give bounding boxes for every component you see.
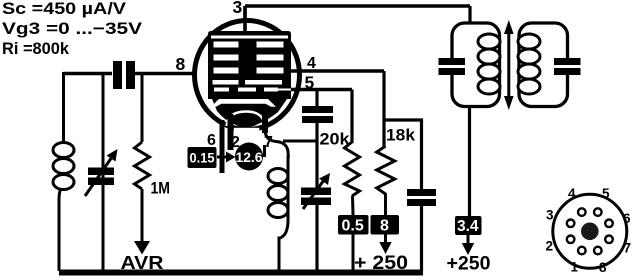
socket pin holes [578, 208, 586, 216]
variable capacitor CV1 bottom plate [88, 178, 114, 186]
inductor L1 loop 3 [53, 175, 74, 190]
svg-text:8: 8 [380, 218, 389, 235]
wire pin7 lead curve [262, 113, 268, 133]
capacitor coupling C1 right plate [126, 61, 135, 89]
ground bus bottom [59, 270, 423, 276]
svg-text:Ri =800k: Ri =800k [2, 39, 70, 58]
arrow below 8 box [384, 235, 387, 244]
resistor R1 1M zigzag [135, 142, 150, 189]
transformer tuning arrow double-headed [507, 30, 510, 100]
inductor L1 loop 1 [53, 143, 74, 158]
tube V1 envelope [195, 21, 300, 130]
svg-text:6: 6 [207, 132, 216, 149]
inductor L1 loop 2 [53, 159, 74, 174]
wire transformer drop from top line [468, 6, 471, 23]
svg-text:4: 4 [568, 186, 576, 201]
wire pin5 corner down to 20k [350, 90, 353, 144]
label box 0.5 [338, 215, 369, 235]
svg-text:8: 8 [176, 54, 186, 74]
tube grid stripes right column [257, 42, 284, 48]
svg-text:2: 2 [546, 239, 554, 254]
svg-text:0.5: 0.5 [342, 218, 364, 235]
tube V1 anode block [208, 31, 291, 99]
transformer T1 right winding capsule [519, 23, 568, 107]
wire top horizontal from pin 3 to transformer [245, 4, 470, 7]
tube grid stripes left column [214, 42, 239, 48]
svg-text:0.15: 0.15 [190, 150, 215, 166]
label box 8 [371, 215, 400, 235]
svg-text:8: 8 [599, 260, 607, 275]
capacitor C2 top plate [302, 106, 333, 113]
arrow 0.15 to 12.6 [217, 156, 227, 159]
svg-text:Vg3 =0 ...−35V: Vg3 =0 ...−35V [2, 19, 143, 38]
label box 0.15 [188, 147, 217, 168]
wire transformer bottom down to 3.4 [468, 107, 471, 216]
svg-text:12.6: 12.6 [236, 149, 263, 165]
tube socket circle [553, 194, 627, 268]
wire 0.5 box to bus [352, 235, 355, 271]
wire below 1M to AVR arrow [141, 189, 144, 242]
resistor R2 20k zigzag [345, 142, 360, 196]
svg-text:7: 7 [624, 241, 632, 256]
white gap in right capsule leg for cap [564, 65, 572, 68]
socket center hole [581, 223, 599, 241]
variable capacitor CV2 bottom plate [301, 198, 331, 206]
wire left vertical with antenna coil L1 [62, 72, 65, 145]
tube dome cap black [212, 99, 287, 128]
variable capacitor CV1 top plate [88, 168, 114, 176]
wire pin4 corner down to 18k [382, 71, 385, 147]
wire pin 4 to right [288, 69, 384, 72]
svg-text:5: 5 [602, 186, 610, 201]
svg-text:Sc =450 µA/V: Sc =450 µA/V [2, 0, 127, 18]
resistor R3 18k zigzag [377, 146, 395, 194]
svg-text:18k: 18k [386, 127, 416, 145]
transformer T1 right winding turns [518, 34, 540, 49]
tube white band above cathode [211, 99, 276, 107]
wire stub from pin5 line down to C2 [315, 90, 318, 107]
label box 3.4 [455, 216, 482, 235]
svg-text:3.4: 3.4 [457, 218, 479, 235]
wire from C1 to tube pin 8 [135, 72, 196, 75]
wire grid horizontal at y73.5 left section [64, 72, 113, 75]
svg-text:1M: 1M [151, 180, 171, 198]
tube white arc over cathode arch [227, 112, 265, 127]
arrowhead AVR [134, 241, 150, 255]
heater lead bar pin6 [220, 120, 225, 173]
capacitor C3 right top plate [407, 189, 436, 196]
wire pin 3 vertical into tube [243, 6, 246, 34]
wire branch at y120 to right cap [384, 120, 422, 189]
wire left vertical below coil [59, 183, 64, 271]
transformer T1 left winding turns [478, 34, 500, 49]
svg-text:+250: +250 [447, 253, 491, 275]
tube pin3 lead inside [243, 6, 247, 34]
heater voltage circle 12.6 [235, 143, 263, 171]
wire pin 5 to right [291, 88, 352, 91]
svg-text:3: 3 [233, 0, 243, 17]
inductor L2 loop 2 [268, 186, 288, 201]
wire below CV2 to bus [315, 205, 318, 271]
transformer T1 left winding capsule [452, 23, 500, 107]
capacitor C4 plates on left capsule [439, 58, 466, 65]
arrow below 3.4 box [467, 235, 470, 244]
wire coil L2 bottom to bus [279, 220, 288, 271]
inductor L2 loop 1 [268, 169, 288, 184]
capacitor C3 right bottom plate [407, 199, 436, 206]
wire 18k bottom to 8 box [384, 193, 387, 215]
tube white separator top [211, 36, 288, 39]
tube white gap inside cathode arch [234, 128, 259, 133]
variable capacitor CV2 top plate [301, 188, 331, 196]
wire pin7 junction horizontal [283, 140, 317, 143]
wire 20k bottom to 0.5 box [351, 196, 355, 215]
svg-text:1: 1 [571, 260, 579, 275]
wire coil L2 vertical [287, 156, 290, 222]
wire C3 to bus right end [420, 206, 423, 271]
svg-text:6: 6 [623, 211, 631, 226]
wire below C2 to var cap 2 [315, 123, 318, 188]
stub circle to pin7 lead [263, 145, 266, 157]
variable capacitor CV2 arrow [303, 180, 324, 209]
white gap in left capsule leg for cap [448, 65, 456, 68]
svg-text:3: 3 [546, 208, 554, 223]
wire curve to coil L2 top [276, 142, 288, 159]
wire variable capacitor branch vertical x103 [102, 72, 105, 271]
heater lead bar pin2 [228, 114, 234, 150]
wire 1M resistor branch vertical x142 [141, 72, 144, 142]
inductor L2 loop 3 [268, 203, 288, 218]
capacitor C2 bottom plate [302, 116, 333, 123]
capacitor C5 plates on right capsule [554, 58, 581, 65]
capacitor coupling C1 left plate [113, 61, 122, 89]
variable capacitor CV1 arrow [85, 157, 112, 196]
